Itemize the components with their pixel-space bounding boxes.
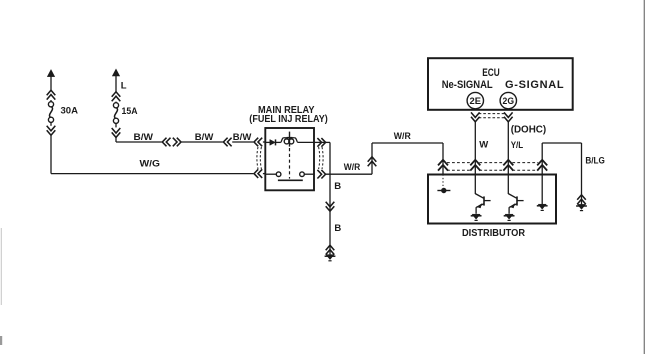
svg-text:W/G: W/G [140, 158, 161, 169]
svg-text:Ne-SIGNAL: Ne-SIGNAL [442, 79, 493, 91]
svg-text:(DOHC): (DOHC) [511, 124, 547, 135]
svg-text:B/LG: B/LG [585, 156, 605, 167]
svg-text:Y/L: Y/L [511, 140, 524, 151]
svg-text:G-SIGNAL: G-SIGNAL [505, 79, 564, 91]
svg-text:B: B [334, 223, 341, 234]
svg-text:B: B [334, 181, 341, 192]
svg-text:B/W: B/W [134, 132, 154, 143]
svg-text:2G: 2G [503, 96, 515, 106]
svg-text:15A: 15A [122, 106, 138, 117]
svg-text:30A: 30A [61, 105, 79, 116]
svg-text:W/R: W/R [394, 131, 411, 142]
svg-text:DISTRIBUTOR: DISTRIBUTOR [462, 228, 526, 239]
svg-text:L: L [121, 81, 127, 92]
svg-text:ECU: ECU [482, 67, 500, 79]
svg-text:(FUEL INJ RELAY): (FUEL INJ RELAY) [249, 114, 327, 125]
svg-text:B/W: B/W [195, 132, 214, 143]
svg-text:2E: 2E [470, 96, 482, 106]
svg-text:B/W: B/W [233, 132, 252, 143]
svg-text:W: W [479, 139, 488, 150]
svg-text:W/R: W/R [344, 162, 361, 173]
